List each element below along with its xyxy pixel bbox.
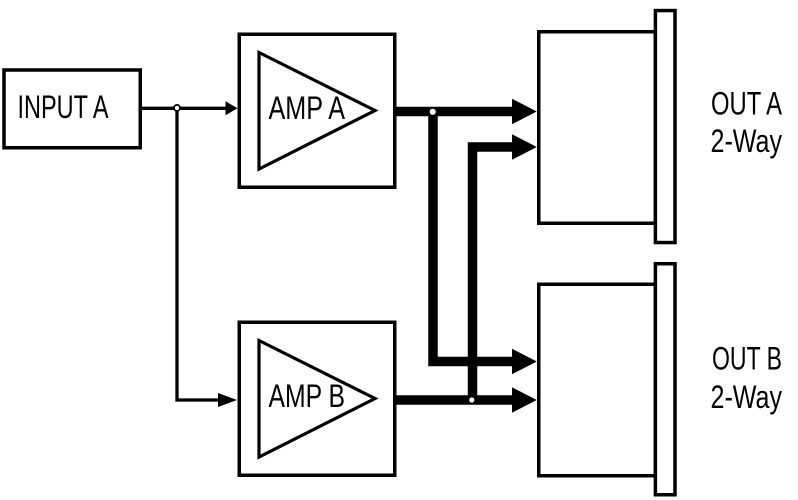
- amplifier triangle B: [259, 341, 375, 458]
- node: AMP A output junction (white dot): [430, 109, 436, 115]
- arrowhead into OUT A bottom: [512, 134, 537, 160]
- speaker OUT B baffle: [655, 264, 675, 495]
- wire: AMP B branch up to OUT A bottom input: [473, 147, 514, 400]
- arrowhead into OUT B bottom: [512, 387, 537, 413]
- svg-text:AMP B: AMP B: [269, 378, 346, 414]
- box INPUT A: [4, 70, 140, 148]
- svg-text:AMP A: AMP A: [269, 90, 346, 126]
- speaker OUT B cabinet: [539, 284, 656, 476]
- svg-text:INPUT A: INPUT A: [18, 89, 109, 125]
- arrowhead into AMP A: [226, 101, 238, 115]
- wire: AMP B thick output: [395, 395, 513, 405]
- node: AMP B output junction (white dot): [469, 397, 474, 402]
- wire: AMP A branch down to OUT B top input: [433, 112, 513, 362]
- wire: AMP A thick output: [395, 107, 513, 117]
- box AMP B: [239, 322, 395, 475]
- arrowhead into OUT A top: [512, 99, 537, 125]
- svg-text:OUT A: OUT A: [711, 86, 782, 122]
- svg-text:2-Way: 2-Way: [711, 123, 783, 159]
- box AMP A: [239, 34, 395, 187]
- wire: junction down to AMP B input: [177, 108, 227, 400]
- amplifier triangle A: [259, 53, 375, 170]
- wire: INPUT A output to AMP A input: [138, 107, 227, 110]
- arrowhead into AMP B: [218, 393, 237, 407]
- node: input junction (open circle): [174, 105, 180, 111]
- svg-text:2-Way: 2-Way: [711, 379, 783, 415]
- speaker OUT A baffle: [655, 11, 675, 243]
- svg-text:OUT B: OUT B: [712, 341, 782, 377]
- arrowhead into OUT B top: [512, 349, 537, 375]
- speaker OUT A cabinet: [539, 32, 656, 224]
